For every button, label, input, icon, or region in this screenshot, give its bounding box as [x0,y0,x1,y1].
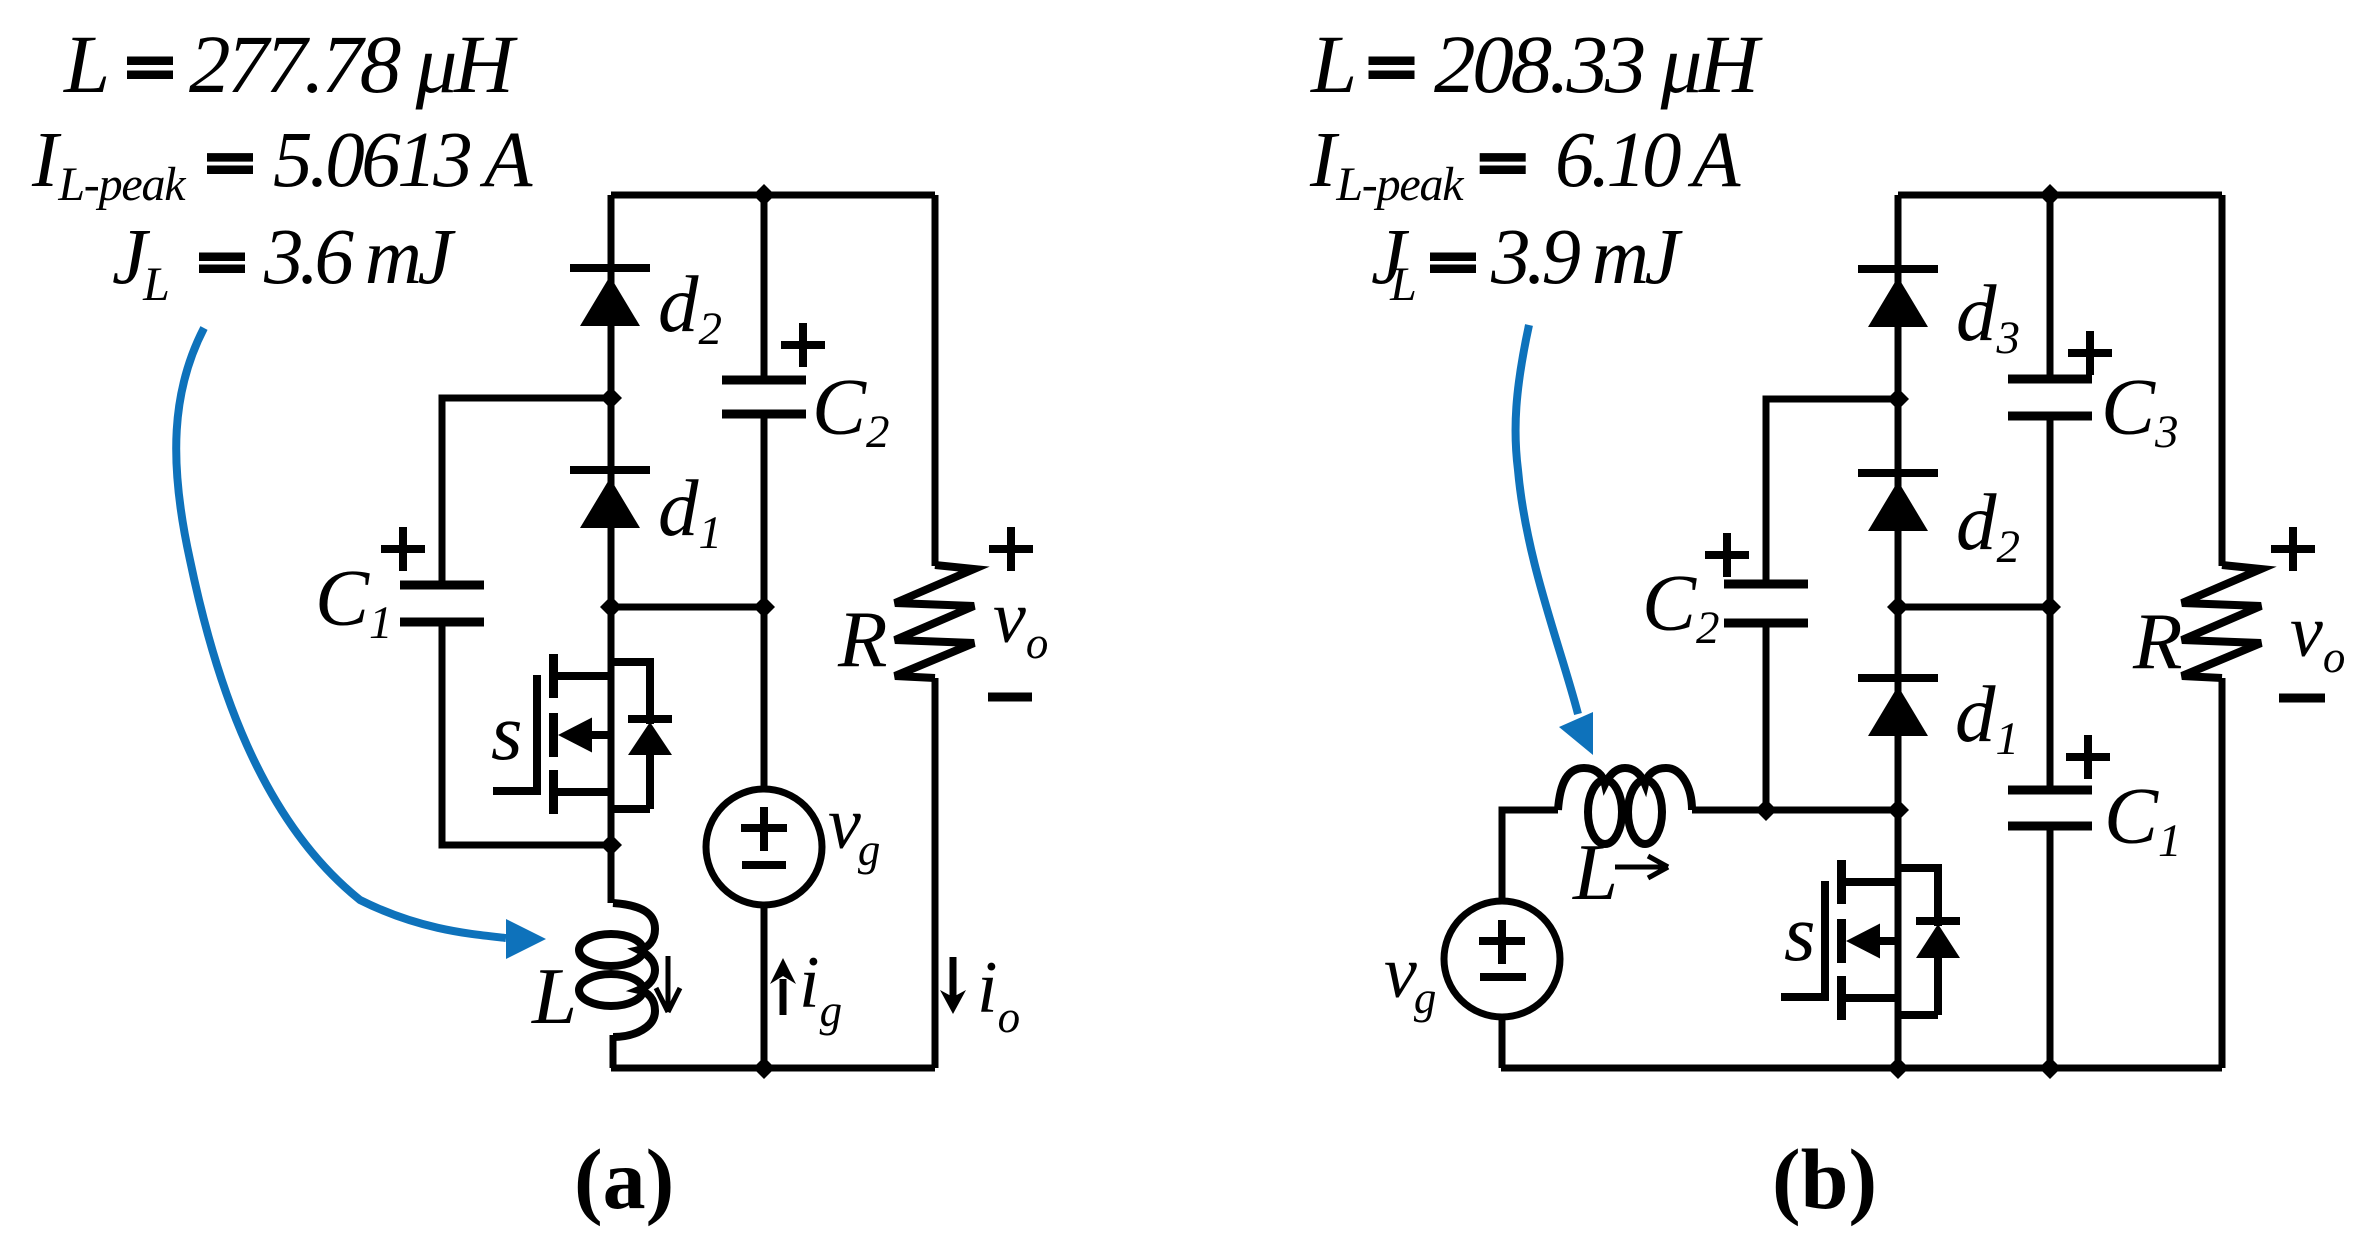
junction node d2-d1 (b) [1887,596,1909,618]
junction node C2 bottom (b) [1755,799,1777,821]
wire C2 branch upper (a) [761,195,768,380]
svg-text:6.10 A: 6.10 A [1555,117,1741,204]
svg-text:JL: JL [1371,214,1416,311]
inductor L (a) [613,903,655,1037]
capacitor C2 (a) [722,380,806,414]
plus sign C2 (b) [1705,533,1749,577]
junction node d3-d2 (b) [1887,388,1909,410]
wire C3 to C1 (b) [2047,416,2054,790]
wire C3 branch upper (b) [2047,195,2054,379]
current arrow i_o (a) [940,957,966,1014]
transistor s (b) MOSFET with body diode [1781,860,1960,1020]
minus sign v_o (a) [988,693,1032,702]
junction node mosfet source (a) [600,834,622,856]
svg-text:L: L [63,18,110,110]
wire source up to inductor (b) [1502,810,1558,901]
wire C1 to bottom rail (b) [2047,826,2054,1068]
wire C1 lower link (a) [442,622,611,845]
wire bottom rail (a) [611,1065,935,1072]
svg-text:R: R [837,594,887,684]
svg-text:vg: vg [828,783,880,875]
wire left branch vertical (b) [1895,195,1902,810]
wire right branch upper (a) [932,195,939,566]
diode d2 (b) [1858,473,1938,531]
svg-text:R: R [2132,596,2182,686]
junction node bottom rail (a) [753,1057,775,1079]
wire mid link d1-C2 (a) [611,604,764,611]
wire top rail (b) [1898,192,2222,199]
svg-text:vg: vg [1384,932,1436,1023]
svg-text:JL: JL [112,214,169,311]
svg-text:IL-peak: IL-peak [1309,117,1465,211]
svg-text:L: L [1310,18,1357,110]
svg-text:C1: C1 [2104,771,2182,867]
wire inductor to bottom rail (a) [610,1035,617,1068]
inductor L (b) [1558,768,1692,810]
current arrow i_g (a) [770,958,796,1015]
svg-text:d2: d2 [1956,477,2020,573]
wire left branch vertical (a) [608,195,615,903]
wire source to bottom rail (b) [1499,1017,1506,1068]
junction node bottom rail mosfet (b) [1887,1057,1909,1079]
svg-text:io: io [977,947,1020,1042]
current arrow beside inductor (a) [656,956,680,1012]
svg-text:vo: vo [2290,591,2345,682]
plus sign C3 (b) [2068,331,2112,375]
svg-text:s: s [491,687,523,777]
blue annotation arrow to L (a) [176,328,546,959]
diode d1 (a) [570,470,650,528]
svg-text:vo: vo [993,577,1048,668]
junction node bottom rail C1 (b) [2039,1057,2061,1079]
wire mid link d-string to C3 (b) [1898,604,2050,611]
svg-text:C2: C2 [1642,558,1720,654]
wire C2 upper link (b) [1766,399,1898,584]
svg-text:d1: d1 [1955,669,2019,765]
svg-text:3.6 mJ: 3.6 mJ [263,214,457,301]
junction node top rail (a) [753,184,775,206]
capacitor C1 (b) [2008,790,2092,826]
wire bottom rail (b) [1501,1065,2222,1072]
arrow beside inductor L (b) [1615,856,1668,878]
wire mosfet branch vertical (b) [1895,810,1902,1068]
capacitor C1 (a) [400,585,484,622]
resistor R (b) [2182,565,2261,678]
wire C1 upper link (a) [442,398,611,585]
minus sign v_o (b) [2279,694,2325,703]
junction node top rail (b) [2039,184,2061,206]
wire inductor to mosfet node (b) [1692,807,1898,814]
junction node C3-C1 (b) [2039,596,2061,618]
resistor R (a) [895,565,974,678]
wire top rail (a) [611,192,935,199]
svg-text:277.78 μH: 277.78 μH [189,18,518,110]
voltage source v_g (b) [1444,901,1560,1017]
wire C2 to source (a) [761,414,768,790]
svg-text:ig: ig [799,942,842,1036]
svg-text:L: L [1572,827,1618,917]
svg-text:208.33 μH: 208.33 μH [1434,18,1763,110]
svg-text:C3: C3 [2101,362,2179,458]
svg-text:(b): (b) [1772,1131,1877,1227]
wire right branch lower (a) [932,678,939,1068]
diode d2 (a) [570,268,650,326]
plus sign C1 (b) [2066,735,2110,779]
svg-text:d2: d2 [658,259,722,355]
capacitor C2 (b) [1724,584,1808,623]
wire right branch upper (b) [2219,195,2226,566]
diode d1 (b) [1858,678,1938,736]
svg-text:3.9 mJ: 3.9 mJ [1490,214,1684,301]
svg-text:5.0613 A: 5.0613 A [273,117,533,204]
svg-text:d1: d1 [658,463,722,559]
plus sign C2 (a) [781,323,825,367]
svg-text:L: L [531,951,577,1041]
junction node d1-mosfet (a) [600,596,622,618]
wire source to bottom rail (a) [761,905,768,1068]
junction node inductor-mosfet (b) [1887,799,1909,821]
voltage source v_g (a) [706,789,822,905]
diode d3 (b) [1858,269,1938,327]
blue annotation arrow to L (b) [1516,325,1593,755]
wire right branch lower (b) [2219,678,2226,1068]
svg-text:s: s [1784,888,1816,978]
svg-text:C2: C2 [812,362,890,458]
svg-text:d3: d3 [1956,268,2020,364]
svg-text:IL-peak: IL-peak [31,117,187,211]
plus sign C1 (a) [381,527,425,571]
junction node C2 bottom (a) [753,596,775,618]
junction node d2-d1 (a) [600,387,622,409]
capacitor C3 (b) [2008,379,2092,416]
transistor s (a) MOSFET with body diode [493,654,672,814]
plus sign v_o (a) [989,527,1033,571]
wire C2 lower link (b) [1763,623,1770,810]
svg-text:(a): (a) [574,1131,674,1227]
plus sign v_o (b) [2271,527,2315,571]
svg-text:C1: C1 [315,553,393,649]
